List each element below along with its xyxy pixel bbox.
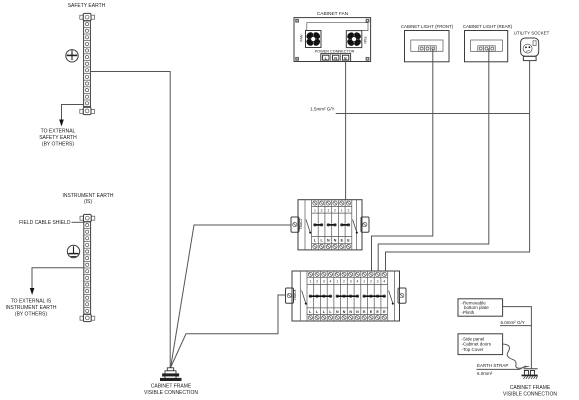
svg-text:2: 2 [316,280,318,284]
cabinet light rear box [465,31,508,62]
svg-text:-Top Cover: -Top Cover [462,347,485,352]
svg-text:4: 4 [356,280,358,284]
svg-text:3: 3 [323,280,325,284]
cabinet light rear title [463,24,513,29]
svg-text:N: N [349,310,352,314]
svg-text:FIELD CABLE SHIELD: FIELD CABLE SHIELD [19,220,71,226]
svg-text:1: 1 [327,208,329,212]
svg-text:3: 3 [350,280,352,284]
TB1 link L pair [314,224,323,227]
removable parts box [458,299,503,316]
svg-text:1: 1 [341,208,343,212]
TB1 left continuation slash [306,220,311,234]
utility socket icon [521,38,539,61]
terminal block TB1 body [298,200,362,250]
ground symbol bottom right [522,368,538,379]
svg-text:2: 2 [321,208,323,212]
panels box [458,334,503,355]
svg-text:N: N [334,239,337,243]
TB2 rotated designation [293,289,297,300]
TB2 link E group [363,295,386,298]
TB1 right continuation slash [353,220,358,234]
safety earth strip bottom bracket [80,107,95,114]
TB2 link L group [309,295,332,298]
svg-text:(IS): (IS) [84,199,92,205]
svg-text:N: N [327,239,330,243]
TB2 right continuation slash [389,291,394,305]
safety earth terminal strip label [68,3,106,9]
svg-text:1: 1 [309,280,311,284]
svg-text:4: 4 [330,280,332,284]
earth bus wire 1.5mm [336,113,530,115]
fan 2 label [363,37,367,44]
field cable shield label and leader [19,220,83,226]
svg-text:EARTH STRAP: EARTH STRAP [477,363,508,368]
svg-text:VISIBLE CONNECTION: VISIBLE CONNECTION [144,390,198,396]
wire to external IS earth with arrow [30,268,84,295]
svg-text:-Side panel: -Side panel [462,336,485,341]
svg-text:1: 1 [314,208,316,212]
wire to external safety earth with arrow [59,105,83,127]
svg-text:TO EXTERNAL: TO EXTERNAL [41,129,76,135]
TB2 top screw row [308,272,386,276]
instrument earth strip bottom bracket [80,314,95,321]
svg-text:N: N [343,310,346,314]
TB1 bottom screw row [313,244,351,248]
svg-text:2: 2 [343,280,345,284]
TB2 left end bracket [286,288,294,303]
cabinet fan title [317,11,349,17]
cabinet frame stud [161,368,182,381]
safety earth screw symbol [66,50,78,62]
svg-text:N: N [356,310,359,314]
label 6.0mm2 G/Y with leader [500,320,531,326]
svg-text:(BY OTHERS): (BY OTHERS) [42,142,74,148]
wire removable parts to ground [503,307,532,369]
terminal block TB2 body [292,271,400,321]
TB1 link E pair [341,224,350,227]
svg-text:FAN: FAN [363,37,367,44]
svg-text:FAN: FAN [299,34,303,41]
wire safety earth to frame stud [90,72,170,368]
cabinet frame stud label [144,384,198,397]
instrument earth strip terminals [84,222,91,314]
svg-text:SAFETY EARTH: SAFETY EARTH [39,135,77,141]
instrument earth label [63,193,114,205]
svg-text:VISIBLE CONNECTION: VISIBLE CONNECTION [503,391,557,397]
wire light rear earth to TBAC [378,49,489,272]
svg-text:2: 2 [348,208,350,212]
wire light front earth to TBAC [372,49,433,272]
svg-text:INSTRUMENT EARTH: INSTRUMENT EARTH [6,305,57,311]
power connector terminals L N E [321,54,351,62]
svg-text:CABINET FRAME: CABINET FRAME [151,384,192,390]
TB1 terminal letters [314,239,350,243]
power connector label [315,49,355,53]
svg-text:-Cabinet doors: -Cabinet doors [462,342,492,347]
wire fan earth to TB500 [345,62,347,200]
TB1 rotated designation [299,218,303,229]
TB2 terminal numbers [309,280,385,284]
svg-text:CABINET FAN: CABINET FAN [317,11,349,17]
safety earth strip terminals [84,21,91,107]
svg-text:6.0mm²: 6.0mm² [477,371,493,376]
svg-text:2: 2 [370,280,372,284]
TB2 bottom screw row [308,316,386,320]
TB2 terminal letters [309,310,386,314]
svg-text:2: 2 [334,208,336,212]
instrument earth ground symbol [67,245,79,257]
TB1 terminal numbers [314,208,350,212]
svg-text:4: 4 [383,280,385,284]
svg-text:TBAC4: TBAC4 [293,289,297,300]
cabinet light front box [405,31,450,62]
fan 1 [305,31,321,48]
wire TB1 to frame stud [171,225,291,368]
TB1 right end bracket [361,217,369,232]
wire utility socket earth to TBAC [386,61,530,271]
fan internal wiring [307,23,368,31]
svg-text:CABINET LIGHT (FRONT): CABINET LIGHT (FRONT) [401,24,454,29]
svg-text:CABINET LIGHT (REAR): CABINET LIGHT (REAR) [463,24,513,29]
svg-text:3: 3 [377,280,379,284]
label to external safety earth [39,129,77,148]
svg-text:N: N [336,310,339,314]
safety earth strip top bracket [80,13,95,20]
TB2 link N group [336,295,359,298]
svg-text:N: N [334,55,337,60]
svg-text:UTILITY SOCKET: UTILITY SOCKET [514,31,550,36]
fan 2 [346,31,362,48]
svg-text:TBAC2: TBAC2 [299,218,303,229]
svg-text:CABINET FRAME: CABINET FRAME [510,385,551,391]
earth strap squiggle [503,344,529,368]
cabinet light front title [401,24,454,29]
label to external IS instrument earth [6,299,57,318]
svg-text:1: 1 [363,280,365,284]
svg-text:(BY OTHERS): (BY OTHERS) [15,312,47,318]
TB2 left continuation slash [302,291,307,305]
TB1 top screw row [313,201,351,205]
fan 1 label [299,34,303,41]
label 1.5mm2 G/Y [310,107,334,112]
svg-text:POWER CONNECTOR: POWER CONNECTOR [315,49,355,53]
svg-text:-Plinth: -Plinth [462,310,475,315]
svg-text:SAFETY EARTH: SAFETY EARTH [68,3,106,9]
ground symbol label [503,385,557,398]
utility socket title [514,31,550,36]
TB1 link N pair [327,224,336,227]
cabinet fan enclosure box [294,18,371,62]
TB1 left end bracket [291,217,299,232]
earth strap label with leader [477,363,527,376]
svg-text:E: E [344,55,347,60]
TB2 right end bracket [398,288,406,303]
instrument earth strip top bracket [80,214,95,221]
svg-text:1.5mm² G/Y: 1.5mm² G/Y [310,107,334,112]
svg-text:TO EXTERNAL IS: TO EXTERNAL IS [11,299,52,305]
svg-text:6.0mm² G/Y: 6.0mm² G/Y [501,320,525,325]
svg-text:1: 1 [336,280,338,284]
wire TB2 to frame stud [171,295,286,368]
